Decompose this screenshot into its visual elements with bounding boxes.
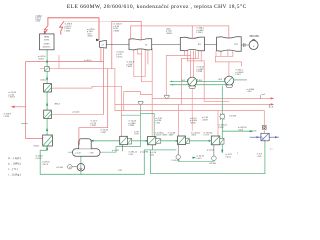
wire extraction to M3 — [114, 69, 116, 111]
text block NTO2 drain — [150, 152, 157, 156]
turbine NT2 — [217, 37, 242, 51]
deaerator dome — [79, 139, 92, 149]
text block NTO1 params — [134, 131, 139, 135]
wire NT2 h2 right drop — [240, 62, 242, 66]
wire left small arrow line — [12, 106, 26, 108]
svg-text:m 40,10: m 40,10 — [84, 60, 92, 62]
text block NTO3 top — [191, 133, 200, 137]
text block VT exhaust params — [116, 52, 124, 59]
svg-text:600/610°C: 600/610°C — [43, 47, 52, 49]
wire condensate mid line — [122, 114, 141, 116]
svg-text:t 23,6: t 23,6 — [247, 90, 252, 93]
wire NT1 header h3 drop to M0 — [203, 61, 205, 101]
wire ST extraction 1 — [134, 50, 145, 77]
boiler reheat zigzag bolt 2 — [60, 22, 64, 35]
wire NT2 h1-h2 link — [214, 56, 216, 62]
text block condenser K1 params — [197, 67, 205, 74]
wire small HX steam line — [40, 68, 115, 70]
wire ST extraction 2 — [142, 50, 153, 82]
wire drain line under NTO2 — [144, 149, 176, 151]
wire cold reheat left loop — [111, 22, 113, 69]
wire main steam line to VT — [48, 18, 99, 40]
svg-text:t 60,4: t 60,4 — [226, 155, 232, 158]
svg-text:i 3698: i 3698 — [113, 31, 119, 33]
feed pump motor M — [68, 165, 72, 169]
text block hot steam params — [65, 24, 73, 33]
svg-text:t 167,3: t 167,3 — [35, 157, 42, 160]
NTO4 drain pump — [213, 145, 215, 156]
feed pump — [77, 164, 84, 171]
turbine NT1 — [180, 37, 204, 51]
svg-text:p 1,18: p 1,18 — [76, 153, 81, 155]
svg-text:t 266,1: t 266,1 — [197, 31, 204, 34]
svg-text:p ... [ MPa ]: p ... [ MPa ] — [8, 162, 21, 165]
svg-text:t 36,2: t 36,2 — [236, 73, 242, 76]
svg-text:×18 kW: ×18 kW — [209, 162, 216, 165]
wire ST extraction jog — [138, 50, 142, 54]
wire M1 bridge feed — [124, 92, 153, 111]
svg-text:t 467,9: t 467,9 — [9, 96, 16, 99]
heater VTO2 — [44, 110, 52, 118]
condenser K2 temp flags — [223, 78, 225, 80]
deaerator tank — [73, 149, 101, 157]
condenser K1 — [188, 77, 197, 86]
text block NTO3 out — [197, 156, 205, 160]
turbine ST — [129, 39, 152, 50]
heater NTO2 — [148, 137, 156, 145]
text block reheat params — [113, 24, 122, 33]
wire condenser drain main — [221, 86, 223, 152]
text block NTO4 shell — [207, 150, 215, 152]
svg-text:i 2687: i 2687 — [168, 135, 174, 137]
text block NTO3 label — [162, 135, 168, 137]
svg-text:i 747,3: i 747,3 — [42, 164, 49, 166]
svg-text:2×25 kW: 2×25 kW — [172, 159, 180, 162]
svg-text:p 0,0296: p 0,0296 — [140, 151, 149, 153]
wire condensate NTO1 to deaerator — [91, 140, 120, 142]
svg-text:t 327,5: t 327,5 — [116, 55, 123, 58]
wire NT2 header h2 — [215, 61, 241, 63]
svg-text:t 330,7: t 330,7 — [38, 57, 45, 60]
svg-text:p 10,45: p 10,45 — [73, 112, 81, 114]
wire NT1 exhaust to condenser K1 — [190, 51, 192, 78]
text block condenser K2 params — [236, 70, 245, 77]
text block KUP label — [252, 129, 257, 132]
svg-text:NT1: NT1 — [198, 44, 201, 46]
wire condensate NTO3-NTO2 — [161, 140, 178, 142]
wire manifold M1 — [152, 97, 273, 99]
wire cooling water out K2 — [234, 79, 247, 81]
wire ST extraction 3 — [144, 50, 146, 77]
wire manifold stub M0 — [204, 100, 229, 102]
wire gland condenser cooling blue out — [269, 136, 278, 138]
text block left bottom params — [4, 114, 12, 118]
svg-text:p 0,245: p 0,245 — [112, 150, 120, 152]
svg-text:t 158,1: t 158,1 — [33, 144, 40, 147]
text block arrow label 2 — [270, 106, 274, 108]
svg-text:i 1230: i 1230 — [4, 116, 10, 118]
text block mid params 1 — [91, 121, 98, 128]
svg-text:×10 kW: ×10 kW — [56, 166, 63, 169]
wire drain pump collector — [178, 159, 214, 161]
wire cooling water 2 — [170, 84, 229, 86]
wire VT exhaust down a — [100, 48, 102, 61]
wire VT exhaust to deaerator — [102, 48, 104, 114]
svg-text:i ... [ kJ/kg ]: i ... [ kJ/kg ] — [8, 173, 21, 176]
text block VTO2 label — [54, 103, 61, 105]
svg-text:t 60,5: t 60,5 — [197, 157, 203, 160]
text block deaerator inlet — [73, 112, 81, 114]
svg-text:t 36,3: t 36,3 — [238, 129, 244, 132]
text block bus label — [118, 170, 123, 172]
svg-text:i 3065: i 3065 — [127, 66, 133, 68]
condenser K1 temp flags — [186, 79, 188, 81]
text block VT inlet params — [87, 29, 95, 38]
heater NTO3 — [178, 136, 186, 145]
svg-text:i 3362: i 3362 — [87, 36, 93, 38]
svg-text:28 MPa: 28 MPa — [44, 43, 50, 45]
svg-text:t 206,2: t 206,2 — [40, 78, 47, 81]
text block feedwater to boiler — [38, 56, 46, 60]
wire ST extraction 4 — [147, 50, 149, 64]
wire condensate NTO2-NTO1 — [132, 140, 148, 142]
wire NTO3 steam drop — [178, 104, 180, 135]
wire manifold M2 — [115, 103, 273, 105]
valve on M2 line — [138, 101, 143, 105]
svg-text:i 3382: i 3382 — [65, 31, 71, 33]
wire condensate to gland condenser — [222, 130, 252, 132]
text block mid params 4 — [190, 118, 198, 125]
svg-text:i 3698: i 3698 — [166, 33, 172, 35]
svg-text:i 2980: i 2980 — [129, 125, 135, 127]
text block feed pump power — [56, 166, 63, 169]
text block mid params 2 — [129, 121, 137, 128]
feedwater arrowheads — [46, 59, 48, 63]
text block main steam params — [35, 16, 41, 23]
shaft VT-ST — [106, 44, 129, 46]
wire NT2 header h1 — [216, 55, 233, 57]
shaft ST-NT1 — [152, 43, 181, 45]
condenser K2 — [225, 76, 234, 85]
svg-text:t 57,3: t 57,3 — [204, 134, 210, 137]
wire gland condenser cooling blue in — [250, 136, 261, 138]
text block mid params 3 — [156, 118, 163, 125]
heater VTO1 — [43, 135, 53, 146]
wire NT1 header h2 — [182, 57, 199, 59]
shaft NT1-NT2 — [204, 44, 216, 46]
svg-text:t ... [ °C ]: t ... [ °C ] — [8, 168, 18, 171]
shaft NT2-G with coupling — [241, 44, 249, 46]
VT inlet arrow — [96, 39, 99, 42]
text block NTO1 shell — [112, 150, 120, 152]
wire green dash left — [22, 123, 28, 125]
text block NT inlet params — [197, 28, 205, 35]
svg-text:i 1230: i 1230 — [35, 21, 40, 23]
wire ST waist inlet overdraw — [140, 39, 142, 41]
svg-text:NT2: NT2 — [234, 44, 237, 46]
condensate pump KC — [220, 113, 222, 120]
text block drain pump label — [172, 159, 180, 162]
text block NTO4 pump power — [209, 162, 216, 165]
wire crossover manifold — [131, 26, 229, 39]
svg-text:t 33,9: t 33,9 — [218, 126, 224, 129]
text block VTO3 label — [40, 78, 47, 81]
gland steam condenser KUP — [261, 133, 269, 141]
svg-text:i 3167: i 3167 — [101, 132, 107, 134]
text block KUP out — [270, 148, 273, 151]
svg-text:660 MW: 660 MW — [250, 35, 260, 38]
generator G — [249, 41, 258, 50]
svg-text:p 0,014: p 0,014 — [207, 150, 215, 152]
heater VTO3 — [44, 84, 52, 93]
text block left loop params — [9, 92, 17, 99]
wire condensate from gland condenser — [151, 141, 265, 174]
wire deaerator steam inlet overdraw — [79, 139, 81, 145]
tick label M2 — [268, 104, 270, 107]
text block NTO1 out — [129, 152, 138, 156]
text block condensate params — [218, 125, 227, 129]
wire NT2 waist inlet overdraw — [228, 37, 230, 39]
svg-text:i 2598: i 2598 — [197, 71, 203, 73]
wire crossover drop NT1 — [191, 26, 193, 38]
wire NT2 nozzles — [215, 51, 217, 56]
svg-text:PARNÍ: PARNÍ — [44, 35, 50, 38]
wire ST exhaust to NTO2 — [151, 49, 153, 137]
svg-text:i 3197: i 3197 — [91, 125, 97, 127]
svg-text:t 84,5: t 84,5 — [191, 134, 197, 137]
wire NT1 header h1 — [166, 55, 190, 57]
wire NT1 header h2 drop to M2 — [181, 58, 183, 104]
tick label M1 — [259, 95, 261, 98]
wire VTO3 steam feed — [52, 86, 122, 136]
wire hot reheat to ST — [64, 21, 112, 23]
wire cooling water 1 — [170, 80, 225, 82]
text block NTO2 top — [155, 133, 164, 137]
wire K1 drain down — [191, 88, 193, 130]
text block ST inlet — [127, 62, 135, 69]
text block KUP drain — [257, 154, 263, 158]
svg-text:KOTEL: KOTEL — [44, 39, 50, 41]
wire condensate NTO4-NTO3 — [189, 140, 211, 142]
svg-text:i 2639: i 2639 — [202, 119, 208, 121]
wire NT2 exhaust to condenser K2 — [228, 62, 230, 76]
wire NTO4 steam drop — [217, 111, 219, 136]
NTO3 drain pump — [177, 145, 179, 155]
wire NT1 header h1 drop to valve — [165, 56, 167, 96]
text block KC pump power — [229, 115, 236, 118]
text block VTO1 label — [33, 144, 40, 147]
valve on M1 line — [165, 95, 170, 99]
legend — [8, 157, 21, 177]
text block arrow label 1 — [262, 94, 266, 96]
svg-text:ELE 660MW, 28/600/610, konden: ELE 660MW, 28/600/610, kondenzační provo… — [67, 3, 247, 10]
text block NTO4 out — [226, 154, 233, 158]
text block NTO2 shell — [140, 151, 149, 153]
heater NTO1 — [120, 136, 128, 144]
text block feed pump suction — [35, 156, 50, 166]
svg-text:i 785: i 785 — [90, 153, 94, 155]
heater small HX top — [44, 67, 49, 72]
wire VTO2 steam feed — [51, 113, 103, 115]
text block extraction small — [84, 60, 92, 62]
turbine VT — [99, 40, 106, 48]
boiler — [40, 34, 55, 50]
text block drain arrow label — [237, 153, 239, 155]
heater NTO4 — [211, 136, 220, 145]
svg-text:i 2687: i 2687 — [162, 135, 168, 137]
wire NT1 waist inlet overdraw — [191, 37, 193, 39]
svg-text:×25 kW: ×25 kW — [229, 115, 236, 118]
boiler steam zigzag bolt 1 — [44, 18, 48, 34]
text block NTO4 top — [204, 133, 213, 137]
wire manifold M3 — [115, 111, 264, 134]
text block ST outlet params — [166, 27, 173, 35]
wire NT1 nozzles — [184, 51, 186, 56]
bowtie valve on KUP feed — [263, 125, 267, 130]
svg-text:i 885,7: i 885,7 — [54, 103, 61, 105]
svg-text:m ... [ kg/s ]: m ... [ kg/s ] — [8, 157, 21, 160]
svg-text:i 2730: i 2730 — [190, 122, 196, 124]
wire tank to pump — [80, 156, 82, 174]
wire feedwater main — [40, 50, 144, 174]
wire NT1 header h3 — [188, 60, 205, 62]
wire stub x59 — [58, 56, 60, 69]
